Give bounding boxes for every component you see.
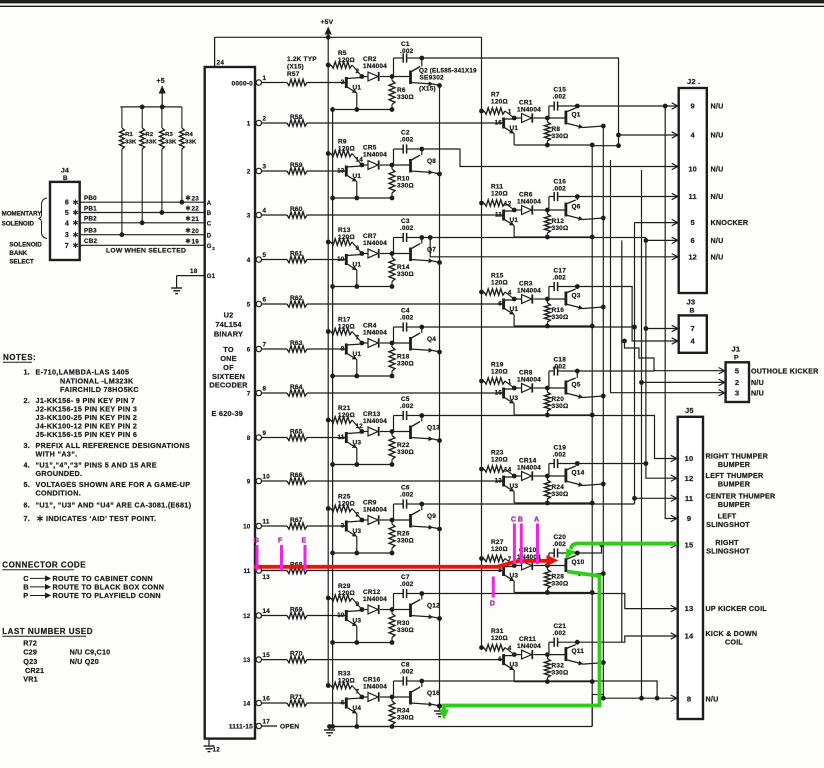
- svg-text:.002: .002: [553, 541, 567, 548]
- top border frame: [0, 0, 824, 6]
- wire right return bus: [591, 145, 593, 727]
- svg-text:OPEN: OPEN: [280, 723, 299, 730]
- diode CR12 1N4004: [362, 589, 392, 614]
- svg-text:R33: R33: [338, 671, 351, 678]
- svg-text:U3: U3: [510, 395, 519, 402]
- resistor R5 120 ohm: [326, 50, 362, 77]
- svg-text:Q7: Q7: [427, 247, 436, 254]
- svg-text:120Ω: 120Ω: [338, 324, 355, 331]
- svg-text:R59: R59: [290, 162, 303, 169]
- svg-text:17: 17: [263, 718, 271, 725]
- svg-text:120Ω: 120Ω: [338, 57, 355, 64]
- svg-text:R57: R57: [287, 71, 300, 78]
- svg-text:Q1: Q1: [572, 112, 581, 119]
- svg-text:7: 7: [691, 324, 695, 333]
- resistor R20 330 ohm: [544, 388, 568, 415]
- svg-text:U1: U1: [353, 173, 362, 180]
- resistor R2 33K: [140, 107, 158, 225]
- svg-text:10: 10: [337, 256, 345, 263]
- svg-text:SELECT: SELECT: [9, 259, 34, 266]
- wire channel long net: [621, 240, 623, 642]
- svg-text:C7: C7: [401, 574, 410, 581]
- resistor R26 330 ohm: [389, 520, 414, 553]
- svg-text:BUMPER: BUMPER: [718, 460, 751, 469]
- svg-text:14: 14: [243, 700, 251, 707]
- svg-text:12: 12: [243, 613, 251, 620]
- U2 internal labels: [209, 311, 248, 419]
- transistor Q11 output: [547, 640, 605, 666]
- svg-text:D: D: [490, 599, 495, 608]
- svg-text:R31: R31: [491, 628, 504, 635]
- svg-text:23: 23: [192, 195, 200, 202]
- label LAST NUMBER USED heading: [2, 627, 93, 636]
- node Q13 base / CR13 cathode: [360, 429, 395, 434]
- svg-text:R24: R24: [552, 484, 565, 491]
- svg-text:4: 4: [65, 220, 69, 227]
- resistor R15 120 ohm: [479, 273, 514, 300]
- svg-text:R8: R8: [552, 126, 561, 133]
- svg-text:CR8: CR8: [519, 370, 533, 377]
- transistor U4 pre-driver (pins 6/7): [340, 689, 362, 727]
- svg-text:12: 12: [685, 474, 694, 483]
- +5V supply arrow main: [321, 19, 334, 65]
- wire staircase J3-4 to J1-5 net: [622, 339, 654, 371]
- svg-text:1N4004: 1N4004: [363, 507, 387, 514]
- svg-text:.002: .002: [400, 669, 414, 676]
- svg-text:NOTES:: NOTES:: [3, 353, 36, 362]
- transistor Q7 output: [392, 235, 442, 265]
- resistor R7 120 ohm: [479, 92, 514, 119]
- node Q7 base / CR7 cathode: [360, 251, 395, 256]
- connector code row C: [23, 574, 153, 583]
- connector J1: [726, 345, 749, 403]
- svg-text:10: 10: [685, 454, 694, 463]
- svg-text:ONE: ONE: [220, 354, 237, 363]
- svg-text:R13: R13: [338, 227, 351, 234]
- svg-text:SLINGSHOT: SLINGSHOT: [706, 546, 750, 555]
- svg-text:1N4004: 1N4004: [517, 199, 541, 206]
- note 7 AID test point: [24, 514, 157, 523]
- svg-text:6: 6: [498, 656, 502, 663]
- svg-text:330Ω: 330Ω: [552, 225, 569, 232]
- svg-text:7: 7: [356, 335, 360, 342]
- node Q5 base / CR8 cathode: [512, 386, 550, 391]
- svg-text:A: A: [207, 201, 212, 207]
- svg-text:R19: R19: [491, 362, 504, 369]
- transistor Q13 output: [392, 413, 442, 443]
- svg-text:5: 5: [735, 366, 739, 375]
- wire U3 emitter return row 10: [330, 551, 394, 556]
- svg-text:J2 .: J2 .: [687, 77, 700, 86]
- capacitor C1 .002: [394, 41, 422, 77]
- svg-text:J5: J5: [685, 406, 694, 415]
- svg-text:E 620-39: E 620-39: [212, 409, 244, 418]
- svg-text:9: 9: [687, 514, 691, 523]
- svg-text:330Ω: 330Ω: [397, 361, 414, 368]
- svg-text:CB2: CB2: [84, 238, 97, 245]
- svg-text:13: 13: [337, 168, 345, 175]
- svg-text:OUTHOLE KICKER: OUTHOLE KICKER: [751, 366, 819, 375]
- resistor R8 330 ohm: [544, 118, 568, 145]
- resistor R13 120 ohm: [326, 227, 362, 254]
- svg-text:R27: R27: [491, 539, 504, 546]
- node Q3 base / CR3 cathode: [512, 297, 550, 302]
- wire U3 emitter return row 12: [330, 640, 394, 645]
- wire U3 emitter return row 9: [514, 501, 595, 506]
- resistor R4 33K: [180, 107, 198, 205]
- node Q10 base / CR10 cathode: [512, 563, 550, 568]
- svg-text:33K: 33K: [185, 140, 197, 146]
- wire Q11 output to J5 pin 14: [577, 633, 676, 642]
- svg-text:+5: +5: [157, 78, 165, 85]
- wire J2 pin 5 stub: [635, 219, 678, 225]
- svg-text:13: 13: [495, 478, 503, 485]
- transistor Q9 output: [392, 502, 442, 532]
- diode CR1 1N4004: [514, 100, 547, 123]
- label 1.2K TYP (X15) R57: [287, 56, 317, 78]
- wire net row1 to J5 pin 9: [665, 106, 677, 522]
- resistor R16 330 ohm: [544, 299, 568, 326]
- svg-text:10: 10: [243, 523, 251, 530]
- node Q14 base / CR14 cathode: [512, 474, 550, 479]
- svg-text:8: 8: [247, 435, 251, 442]
- svg-text:4: 4: [508, 290, 512, 297]
- svg-text:33K: 33K: [165, 140, 177, 146]
- wire left Q emitter bus: [439, 86, 441, 707]
- resistor R68 series: [262, 561, 504, 573]
- svg-text:SLINGSHOT: SLINGSHOT: [706, 520, 750, 529]
- capacitor C4 .002: [394, 308, 422, 344]
- resistor R70 series: [262, 650, 504, 662]
- +5 supply arrow (pull-up network): [157, 78, 166, 107]
- svg-text:P: P: [23, 591, 28, 600]
- svg-text:U3: U3: [353, 528, 362, 535]
- diode CR14 1N4004: [514, 458, 547, 481]
- transistor Q12 output: [392, 591, 442, 621]
- svg-text:120Ω: 120Ω: [338, 590, 355, 597]
- diode CR2 1N4004: [362, 56, 392, 81]
- svg-text:21: 21: [192, 216, 200, 223]
- svg-text:120Ω: 120Ω: [491, 635, 508, 642]
- resistor R58 series: [262, 114, 504, 126]
- resistor R60 series: [262, 206, 504, 218]
- svg-text:U3: U3: [353, 440, 362, 447]
- wire Q12 output to J5 pin 13: [422, 594, 677, 612]
- U2 output pin 14 row 12: [243, 608, 270, 620]
- transistor Q5 output: [547, 369, 605, 399]
- svg-text:C2: C2: [401, 130, 410, 137]
- svg-text:3: 3: [735, 388, 739, 397]
- node Q6 base / CR6 cathode: [512, 208, 550, 213]
- J5 pin 8 N/U: [687, 694, 719, 703]
- node Q4 base / CR4 cathode: [360, 341, 395, 346]
- svg-text:B: B: [207, 211, 212, 217]
- svg-text:BANK: BANK: [9, 250, 27, 257]
- svg-text:1N4004: 1N4004: [517, 377, 541, 384]
- svg-text:R69: R69: [290, 606, 303, 613]
- svg-text:R3: R3: [165, 132, 173, 138]
- svg-text:R72: R72: [23, 638, 37, 647]
- svg-text:330Ω: 330Ω: [552, 581, 569, 588]
- svg-text:16: 16: [495, 390, 503, 397]
- node Q2 base / CR2 cathode: [360, 74, 395, 79]
- wire U1 emitter return row 4: [330, 284, 394, 289]
- resistor R1 33K: [120, 107, 138, 237]
- svg-text:14: 14: [504, 467, 512, 474]
- green highlight trace J5-15 to Q10 collector: [565, 544, 677, 560]
- resistor R25 120 ohm: [326, 494, 362, 521]
- svg-text:Q16: Q16: [427, 690, 440, 697]
- svg-text:R2: R2: [145, 132, 153, 138]
- J1 pin 3 N/U: [735, 388, 764, 397]
- svg-text:330Ω: 330Ω: [552, 133, 569, 140]
- svg-text:KNOCKER: KNOCKER: [711, 218, 749, 227]
- resistor R33 120 ohm: [326, 671, 362, 698]
- svg-text:R26: R26: [397, 531, 410, 538]
- svg-text:R16: R16: [552, 307, 565, 314]
- svg-text:U1: U1: [510, 217, 519, 224]
- U2 output label 0000-0: [232, 81, 254, 88]
- U2 output label 1111-15: [229, 724, 253, 731]
- resistor R34 330 ohm: [389, 697, 414, 727]
- svg-text:CR1: CR1: [519, 100, 533, 107]
- resistor R9 120 ohm: [326, 139, 362, 166]
- J4 pin 6 / net PB0: [65, 195, 205, 207]
- magenta test marker A: [534, 515, 539, 565]
- svg-text:Q2 (EL585-341X19: Q2 (EL585-341X19: [419, 68, 477, 75]
- svg-text:1: 1: [508, 379, 512, 386]
- wire Q14 output join: [577, 463, 646, 465]
- wire bottom ground return line: [328, 726, 593, 728]
- svg-text:12: 12: [213, 747, 221, 754]
- capacitor C19 .002: [549, 445, 577, 477]
- wire pull-up network top rail: [120, 105, 182, 110]
- magenta test marker F: [278, 536, 283, 571]
- resistor R59 series: [262, 162, 347, 174]
- svg-text:0000-0: 0000-0: [232, 81, 254, 88]
- transistor Q3 output: [547, 284, 605, 310]
- svg-text:8: 8: [341, 346, 345, 353]
- resistor R23 120 ohm: [479, 450, 514, 477]
- svg-text:2: 2: [212, 246, 215, 251]
- svg-text:PB2: PB2: [84, 216, 97, 223]
- svg-text:1N4004: 1N4004: [517, 465, 541, 472]
- resistor R29 120 ohm: [326, 583, 362, 610]
- resistor R22 330 ohm: [389, 432, 414, 465]
- node Q1 base / CR1 cathode: [512, 116, 550, 121]
- svg-text:F: F: [278, 536, 283, 545]
- svg-text:R23: R23: [491, 450, 504, 457]
- wire Q4 output join: [422, 326, 635, 328]
- wire Q1 output to J2 pin 9: [577, 103, 677, 109]
- svg-text:10: 10: [688, 164, 697, 173]
- svg-text:11: 11: [337, 434, 344, 441]
- transistor Q16 output: [392, 679, 442, 709]
- svg-text:13: 13: [243, 657, 251, 664]
- wire channel net J2-5/J5-11: [632, 223, 637, 504]
- svg-text:(X15): (X15): [287, 64, 304, 71]
- wire right Q emitter bus: [601, 126, 606, 701]
- svg-text:+5V: +5V: [321, 19, 334, 26]
- svg-text:C: C: [511, 515, 516, 524]
- svg-text:7: 7: [263, 341, 267, 348]
- svg-text:120Ω: 120Ω: [491, 369, 508, 376]
- svg-text:11: 11: [263, 518, 270, 525]
- svg-text:“U1”, “U3” AND “U4” ARE CA-308: “U1”, “U3” AND “U4” ARE CA-3081.(E681): [36, 501, 192, 510]
- svg-text:18: 18: [190, 268, 198, 275]
- notes text block: [24, 368, 192, 510]
- svg-text:5.: 5.: [24, 480, 30, 489]
- transistor Q6 output: [547, 194, 605, 221]
- transistor U3 pre-driver (pins 6/4): [498, 645, 519, 682]
- svg-text:120Ω: 120Ω: [491, 546, 508, 553]
- wire J1 pin 3 stub: [611, 390, 725, 396]
- capacitor C15 .002: [549, 87, 577, 119]
- J5 pin 12 LEFT THUMPER BUMPER: [685, 471, 764, 489]
- svg-text:R22: R22: [397, 442, 410, 449]
- svg-text:DECODER: DECODER: [209, 381, 248, 390]
- svg-text:R60: R60: [290, 206, 303, 213]
- svg-text:R9: R9: [338, 139, 347, 146]
- svg-text:C16: C16: [554, 179, 567, 186]
- resistor R28 330 ohm: [544, 566, 568, 593]
- U2 output pin 8 row 7: [247, 385, 267, 397]
- svg-text:.002: .002: [553, 275, 567, 282]
- svg-text:R21: R21: [338, 405, 351, 412]
- magenta test marker D: [490, 577, 495, 608]
- svg-text:13: 13: [685, 604, 694, 613]
- svg-text:.002: .002: [553, 364, 567, 371]
- capacitor C6 .002: [394, 485, 422, 521]
- svg-text:CR16: CR16: [363, 677, 381, 684]
- svg-text:Q13: Q13: [427, 425, 440, 432]
- svg-text:.002: .002: [400, 403, 414, 410]
- svg-text:4: 4: [247, 257, 251, 264]
- wire +5V top rail: [215, 36, 482, 38]
- wire Q3 output to J3 pin 4: [577, 287, 677, 345]
- svg-text:.002: .002: [553, 452, 567, 459]
- wire Q10 output to J5 pin 15: [577, 542, 676, 553]
- connector code row P: [23, 591, 161, 600]
- diode CR10 1N4004: [514, 547, 547, 570]
- svg-text:11: 11: [685, 494, 693, 503]
- svg-text:Q3: Q3: [572, 293, 581, 300]
- svg-text:R58: R58: [290, 114, 303, 121]
- svg-text:FAIRCHILD 78HO5KC: FAIRCHILD 78HO5KC: [60, 385, 139, 394]
- transistor U1 pre-driver (pins 10/9): [337, 245, 362, 287]
- svg-text:330Ω: 330Ω: [397, 94, 414, 101]
- wire bottom return corner to J5-8 net: [592, 695, 603, 727]
- svg-text:R65: R65: [290, 428, 303, 435]
- transistor Q2 output: [392, 56, 477, 93]
- label NOTES heading: [3, 353, 36, 362]
- svg-text:6: 6: [65, 200, 69, 207]
- U2 output pin 11 row 10: [243, 518, 270, 530]
- resistor R3 33K: [160, 107, 178, 215]
- node Q12 base / CR12 cathode: [360, 607, 395, 612]
- svg-text:120Ω: 120Ω: [338, 146, 355, 153]
- svg-text:1N4004: 1N4004: [363, 152, 387, 159]
- svg-text:CR14: CR14: [519, 458, 537, 465]
- last number used list: [23, 638, 110, 683]
- diode CR5 1N4004: [362, 145, 392, 170]
- svg-text:R66: R66: [290, 472, 303, 479]
- svg-text:.002: .002: [400, 137, 414, 144]
- diode CR6 1N4004: [514, 192, 547, 215]
- J2 pin 5 KNOCKER: [691, 218, 749, 227]
- connector J2: [679, 77, 707, 293]
- diode CR16 1N4004: [362, 677, 392, 702]
- svg-text:CR13: CR13: [363, 411, 381, 418]
- svg-text:9: 9: [356, 601, 360, 608]
- U2 output pin 17 row 15: [256, 718, 270, 728]
- svg-text:33K: 33K: [145, 140, 157, 146]
- J5 pin 15 RIGHT SLINGSHOT: [685, 538, 751, 556]
- svg-text:14: 14: [263, 608, 271, 615]
- capacitor C17 .002: [549, 268, 577, 300]
- svg-text:3: 3: [247, 212, 251, 219]
- capacitor C21 .002: [549, 623, 577, 655]
- capacitor C18 .002: [549, 357, 577, 389]
- svg-text:C8: C8: [401, 662, 410, 669]
- connector J4: [50, 168, 80, 261]
- svg-text:2: 2: [263, 115, 267, 122]
- svg-text:CONNECTOR CODE: CONNECTOR CODE: [2, 561, 86, 570]
- svg-text:R4: R4: [185, 132, 193, 138]
- svg-text:R32: R32: [552, 663, 565, 670]
- wire Q2 output to J2 pin 4: [422, 58, 621, 148]
- svg-text:R62: R62: [290, 295, 303, 302]
- svg-text:13: 13: [263, 574, 271, 581]
- node Q11 base / CR11 cathode: [512, 652, 550, 657]
- red highlight trace net E (row 11 select): [254, 555, 559, 567]
- svg-text:2: 2: [247, 168, 251, 175]
- svg-text:1N4004: 1N4004: [517, 288, 541, 295]
- svg-text:J1: J1: [732, 345, 741, 354]
- svg-text:330Ω: 330Ω: [552, 314, 569, 321]
- svg-text:R11: R11: [491, 184, 503, 191]
- svg-text:U3: U3: [510, 483, 519, 490]
- diode CR7 1N4004: [362, 233, 392, 258]
- svg-text:7: 7: [65, 243, 69, 250]
- wire J2 pin 12 stub: [428, 235, 678, 260]
- IC U2 74L154 decoder body: [205, 67, 255, 739]
- svg-text:U4: U4: [353, 705, 362, 712]
- svg-text:5: 5: [247, 301, 251, 308]
- J4 pin 4 / net PB2: [65, 216, 205, 228]
- capacitor C3 .002: [394, 218, 422, 254]
- svg-text:R25: R25: [338, 494, 351, 501]
- svg-text:SE9302: SE9302: [420, 75, 445, 82]
- svg-text:2: 2: [735, 378, 739, 387]
- svg-text:Q12: Q12: [427, 603, 440, 610]
- U2 output pin 4 row 3: [247, 207, 267, 219]
- svg-text:3: 3: [65, 232, 69, 239]
- resistor R10 330 ohm: [389, 165, 414, 198]
- node Q9 base / CR9 cathode: [360, 518, 395, 523]
- svg-text:B: B: [690, 308, 695, 315]
- U2 output pin 6 row 5: [247, 296, 267, 308]
- svg-text:1.: 1.: [24, 368, 30, 377]
- svg-text:(X15): (X15): [419, 86, 436, 93]
- transistor U1 pre-driver (pins 13/14): [337, 157, 363, 199]
- wire J5 pin 11 stub: [635, 495, 677, 501]
- svg-text:120Ω: 120Ω: [338, 234, 355, 241]
- svg-text:N/U: N/U: [711, 131, 724, 140]
- resistor R19 120 ohm: [479, 362, 514, 389]
- ground symbol left emitter bus: [434, 704, 445, 717]
- svg-text:C5: C5: [401, 396, 410, 403]
